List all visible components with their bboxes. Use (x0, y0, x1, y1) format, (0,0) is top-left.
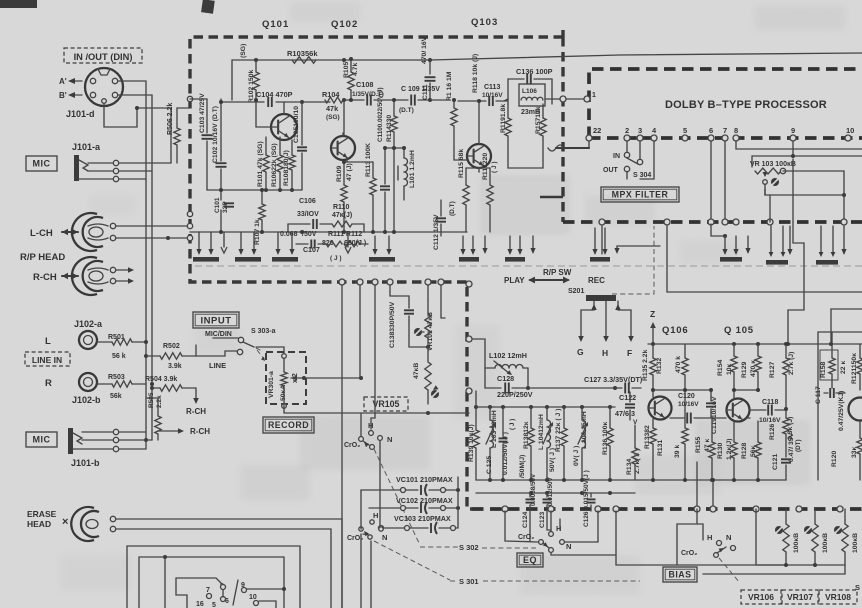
svg-text:R110: R110 (333, 204, 349, 211)
wire drop x360 (359, 285, 361, 378)
wire pin8 down2 (733, 219, 739, 225)
svg-text:C121: C121 (772, 454, 779, 470)
svg-text:R111 R112: R111 R112 (328, 231, 362, 238)
capacitor C120 10/16V (670, 393, 700, 424)
wire mic to rails (119, 163, 171, 179)
wire bias runs (616, 509, 697, 565)
wire mic/din feed (213, 337, 238, 339)
transistor Q101 (271, 114, 297, 140)
head L contacts (110, 223, 115, 240)
svg-text:47k: 47k (326, 104, 339, 113)
label R/P SW (543, 268, 572, 277)
label box VR107 (782, 590, 818, 604)
svg-text:C138330P/50V: C138330P/50V (389, 301, 396, 348)
svg-text:470 k: 470 k (675, 356, 682, 373)
svg-text:C118: C118 (762, 399, 778, 406)
svg-text:R: R (45, 378, 52, 389)
wire Q105 base (700, 417, 726, 419)
wire erase 2 (116, 529, 331, 608)
capacitor C118 10/16V (750, 399, 786, 424)
svg-text:A': A' (59, 77, 67, 86)
switch line S302 (420, 543, 536, 552)
svg-text:C105100/10: C105100/10 (293, 106, 300, 143)
capacitor C126 0.015/50V (583, 470, 596, 527)
label box MPX FILTER (601, 187, 679, 202)
pin 10 (845, 126, 854, 141)
ground bar 7 (590, 228, 610, 262)
svg-text:C122: C122 (619, 393, 636, 402)
label PLAY REC (504, 276, 605, 285)
wire pin22 hook (548, 141, 589, 151)
wire run right a (788, 159, 804, 344)
mic jack contacts (113, 160, 118, 181)
resistor R103 56k (287, 49, 318, 63)
arrow R-CH (62, 273, 78, 279)
dashed cro2 link lower (374, 541, 450, 580)
wire R114 bottom (393, 148, 395, 232)
svg-text:S: S (855, 583, 860, 592)
svg-text:C123: C123 (539, 512, 546, 528)
inductor L104 12mH (538, 407, 556, 480)
svg-text:R134: R134 (626, 459, 633, 475)
svg-text:R506 2.2k: R506 2.2k (167, 103, 174, 135)
wire cro2 lower rails (361, 490, 371, 608)
junction eq bottom (488, 478, 760, 482)
wire R155 top (711, 418, 713, 430)
mechanical link line (195, 265, 862, 267)
resistor R134 2.7k (626, 425, 641, 480)
svg-text:R127: R127 (769, 362, 776, 378)
bus contacts bottom (502, 506, 843, 512)
junction c128 (526, 386, 530, 390)
svg-text:B': B' (59, 91, 67, 100)
svg-text:8: 8 (734, 126, 738, 135)
svg-text:C1100.0022/50V(J): C1100.0022/50V(J) (377, 87, 384, 142)
resistor R126 3.3k (769, 407, 794, 440)
svg-text:REC: REC (588, 276, 605, 285)
svg-text:47 (J): 47 (J) (346, 163, 353, 181)
svg-text:VR 103 100κB: VR 103 100κB (750, 161, 796, 168)
wire L106 right (545, 98, 552, 100)
wire eq feed (475, 391, 477, 407)
capacitor C106 0.068/50V (280, 198, 332, 238)
resistor R501 56k (97, 334, 146, 360)
wire pin7 down (722, 141, 728, 225)
svg-text:2: 2 (625, 126, 629, 135)
resistor R116 1M (446, 71, 457, 148)
wire L106 frame (508, 79, 552, 104)
wire R505 (146, 398, 158, 407)
record/play amp enclosure dashed box (190, 30, 563, 509)
dolby processor enclosure dashed box (563, 69, 862, 222)
switch CrO2 upper (344, 421, 392, 449)
svg-text:9: 9 (791, 126, 795, 135)
resistor R119 1.8k (500, 104, 511, 160)
svg-text:R154: R154 (717, 360, 724, 376)
wire head R bottom (116, 278, 134, 284)
svg-text:PLAY: PLAY (504, 276, 525, 285)
svg-text:F: F (627, 348, 632, 358)
wire erase down (559, 519, 561, 530)
resistor R118 10k(J) (0, 0, 1, 1)
svg-text:R114330: R114330 (386, 115, 393, 142)
resistor R113 100k (365, 143, 376, 232)
wire Q105 collector bus (732, 388, 760, 392)
svg-text:CrO₂: CrO₂ (518, 534, 534, 541)
wire drop x390 (390, 285, 409, 300)
svg-text:R118 10k (J): R118 10k (J) (472, 54, 479, 93)
ground bar 4 (369, 236, 395, 262)
svg-text:220P/250V: 220P/250V (497, 390, 533, 399)
svg-text:0.0068/50V: 0.0068/50V (530, 473, 537, 506)
resistor R110 47k(J) (332, 204, 364, 227)
wire c138 vr101 join (409, 322, 430, 349)
resistor R107 1k (254, 190, 265, 245)
switch frame outer (127, 546, 300, 608)
svg-text:OUT: OUT (603, 167, 619, 174)
wire eq bottom bus (476, 479, 786, 481)
svg-text:Q103: Q103 (471, 17, 498, 28)
svg-text:( J ): ( J ) (509, 419, 516, 430)
junction bus y344 (651, 342, 788, 346)
pot VR108 100kB (834, 509, 859, 565)
svg-text:J101-a: J101-a (72, 142, 101, 152)
wire mic lower (119, 432, 152, 449)
wire DIN pin to rail 2 (118, 95, 152, 238)
wire vc right bus (457, 477, 459, 528)
svg-text:0.47/25V(KJ): 0.47/25V(KJ) (838, 391, 845, 431)
node amp edge x469 (466, 281, 472, 287)
svg-text:C 109 1/35V: C 109 1/35V (401, 86, 440, 93)
svg-text:C101: C101 (214, 197, 221, 213)
svg-text:C 117: C 117 (815, 386, 822, 404)
label J102-a (74, 319, 103, 329)
svg-text:5: 5 (212, 602, 216, 608)
label J101-d (66, 109, 95, 119)
label Q102 (331, 19, 358, 30)
svg-text:IN: IN (613, 153, 620, 160)
svg-text:10/16V: 10/16V (759, 417, 781, 424)
wire Q102 collector emitter (342, 133, 373, 164)
wire Q103 base (454, 148, 467, 160)
svg-text:CrO₂: CrO₂ (344, 442, 360, 449)
wire drop x342 (341, 285, 343, 608)
label Q105 (724, 325, 754, 336)
wire y413 right (428, 412, 469, 414)
svg-text:47/6.3: 47/6.3 (615, 409, 635, 418)
label box VR106 (741, 590, 781, 604)
svg-text:10: 10 (846, 126, 854, 135)
label S bottom right (855, 583, 860, 592)
svg-text:VC101 210PMAX: VC101 210PMAX (396, 475, 453, 484)
pot VR101 lower 47KB (413, 347, 439, 404)
resistor R505 2.2k (148, 392, 163, 440)
wire top feedback (232, 53, 862, 100)
dolby pin row dashed line (589, 136, 862, 140)
svg-text:3: 3 (638, 126, 642, 135)
resistor R120 33k (831, 420, 862, 480)
resistor R109 47(J) (336, 160, 353, 232)
wire R119 R157 bottom (508, 160, 543, 168)
ground arrows left (221, 232, 227, 253)
svg-text:0.012/50V: 0.012/50V (547, 476, 554, 506)
svg-text:3.9k: 3.9k (168, 363, 182, 370)
svg-text:R117220: R117220 (482, 153, 489, 180)
scan mark top-center (201, 0, 215, 14)
capacitor C124 0.0068/50V (522, 473, 537, 541)
resistor R101 47k(SG) (257, 140, 269, 190)
svg-text:C 125: C 125 (486, 456, 493, 474)
svg-text:C127 3.3/35V(DT): C127 3.3/35V(DT) (584, 375, 643, 384)
junction line nodes (144, 340, 154, 390)
svg-text:470/ 16V: 470/ 16V (421, 36, 428, 64)
ground bar 8 (766, 226, 788, 265)
wire line feed (196, 351, 237, 356)
ground arrow 7x (614, 246, 660, 254)
resistor R503 56k (97, 374, 146, 400)
capacitor C112 1/35V (433, 200, 456, 250)
wire wafer 10 (259, 601, 276, 608)
transistor Q103 (467, 144, 491, 168)
svg-text:(SG): (SG) (326, 114, 340, 121)
svg-text:C104 470P: C104 470P (256, 90, 293, 99)
wire Q101 base (256, 100, 272, 127)
wire Q103 emitter (466, 168, 490, 172)
svg-text:VR105: VR105 (373, 399, 400, 409)
resistor R504 3.9k (145, 376, 196, 391)
svg-text:RECORD: RECORD (268, 420, 309, 430)
wire Q103 down (478, 171, 480, 173)
label J101-b (71, 458, 100, 468)
pin 22 (586, 126, 601, 141)
svg-text:IN /OUT (DIN): IN /OUT (DIN) (74, 52, 133, 62)
svg-text:DOLBY B–TYPE PROCESSOR: DOLBY B–TYPE PROCESSOR (665, 99, 827, 111)
svg-text:16: 16 (196, 601, 204, 608)
svg-text:470 κ: 470 κ (750, 360, 757, 377)
svg-text:VC102 210PMAX: VC102 210PMAX (396, 496, 453, 505)
trimmer VC101 210PMAX (396, 475, 460, 496)
svg-text:S 304: S 304 (633, 172, 651, 179)
pot VR106 100kB (775, 509, 800, 565)
svg-text:J101-d: J101-d (66, 109, 95, 119)
svg-text:100κB: 100κB (793, 533, 800, 553)
svg-text:7: 7 (723, 126, 727, 135)
resistor R115 68k (458, 149, 469, 232)
wire drop x697 (696, 462, 698, 509)
wire pin6 down (708, 141, 714, 225)
svg-text:100κB: 100κB (852, 533, 859, 553)
label J102-b (72, 395, 101, 405)
pot VR103 100KB (750, 161, 796, 195)
pin 2 (624, 126, 630, 141)
dashed cro2 link (374, 449, 420, 545)
capacitor C103 47/25V (199, 93, 213, 190)
svg-text:(D.T): (D.T) (449, 201, 456, 216)
svg-text:10/16V: 10/16V (678, 401, 699, 408)
label J101-a (72, 142, 101, 152)
svg-text:S 303-a: S 303-a (251, 328, 276, 335)
svg-text:R139 10κ(J): R139 10κ(J) (468, 424, 475, 462)
svg-text:2.2k: 2.2k (156, 395, 163, 408)
ground arrow r1 (787, 226, 792, 255)
junction top nodes (254, 58, 346, 62)
svg-text:LINE IN: LINE IN (32, 355, 62, 365)
ground bar 7b (711, 224, 742, 262)
svg-text:S 301: S 301 (459, 577, 479, 586)
label box EQ (517, 553, 543, 567)
svg-text:39 k: 39 k (674, 445, 681, 458)
inductor L105 15mH (573, 407, 588, 480)
ground arrow 6x (530, 236, 535, 254)
svg-text:R115 68k: R115 68k (458, 149, 465, 178)
svg-text:0.068: 0.068 (280, 231, 298, 238)
label S303-a (251, 328, 276, 335)
svg-text:R131: R131 (657, 440, 664, 456)
wire DIN bottom pin (104, 104, 171, 163)
svg-text:R503: R503 (108, 374, 125, 381)
resistor R138 12k (523, 407, 534, 480)
wire eq net verticals (288, 224, 364, 232)
ground bar 9 (816, 226, 838, 265)
wire y418 cont (747, 417, 750, 419)
wire L101 node (383, 146, 406, 150)
dashed bias link (719, 558, 740, 583)
capacitor C113 10/16V (458, 84, 508, 106)
wire ground bus (190, 231, 467, 233)
svg-text:L102 12mH: L102 12mH (489, 351, 527, 360)
capacitor C110 0.0022/50V(J) (377, 87, 390, 232)
svg-text:6: 6 (709, 126, 713, 135)
svg-text:VR301-a: VR301-a (268, 371, 275, 398)
label LINE (209, 361, 226, 370)
svg-text:R120: R120 (831, 451, 838, 467)
svg-text:R-CH: R-CH (33, 272, 57, 283)
wire drop x713 (711, 478, 715, 509)
switch frame inner (139, 557, 284, 608)
scan mark top-left (0, 0, 37, 8)
wire y493 bus (476, 491, 635, 495)
resistor R133 82 (644, 419, 656, 460)
wire VR103 out (783, 171, 846, 224)
trimmer VC102 210PMAX (396, 496, 460, 514)
wire N to VC103 (379, 441, 381, 525)
svg-text:N: N (387, 435, 392, 444)
ground bar 5 (459, 236, 479, 262)
switch S303-a (237, 337, 262, 354)
pin 6 (708, 126, 714, 141)
svg-text:R137 22κ ( J ): R137 22κ ( J ) (555, 409, 562, 452)
capacitor C138 330P/50V (389, 300, 414, 348)
svg-text:100κB: 100κB (822, 533, 829, 553)
dolby bus contacts (599, 219, 847, 225)
arrow A' (59, 77, 82, 86)
pot VR301-a 50KA x2 (268, 354, 306, 409)
wire R502 out (195, 345, 197, 356)
label box RECORD (263, 417, 314, 433)
svg-text:1: 1 (592, 92, 596, 99)
inductor L106 23mH (519, 84, 545, 116)
resistor R137 22k (555, 407, 567, 480)
label ERASE HEAD (27, 509, 57, 529)
wire Q105 collector (733, 390, 735, 399)
svg-text:MPX FILTER: MPX FILTER (612, 190, 669, 200)
junction Q101 base (254, 98, 258, 102)
pin 8 (733, 126, 739, 141)
mic jack J101-a (74, 155, 114, 181)
transistor Q-right edge (849, 398, 862, 421)
capacitor C121 0.47/35V (772, 432, 802, 480)
svg-text:22: 22 (593, 126, 601, 135)
capacitor C102 10/16V(DT) (212, 99, 227, 190)
capacitor C122 47/6.3V (615, 392, 638, 426)
svg-text:L101 1.2mH: L101 1.2mH (409, 150, 416, 188)
capacitor C119 10/16V (706, 390, 718, 434)
resistor R105 4.7k (343, 57, 359, 100)
svg-text:L106: L106 (522, 88, 537, 95)
wire vr103 gnd (769, 195, 771, 222)
wire wafer 9 (247, 587, 286, 591)
label box MIC lower (26, 432, 57, 447)
resistor R157 10k (535, 104, 546, 160)
wire R131 bottom (684, 460, 686, 480)
wire run right c (831, 309, 862, 344)
svg-text:/50M(J): /50M(J) (519, 455, 526, 478)
label R-CH line (186, 407, 206, 416)
label R/P HEAD (20, 252, 65, 263)
capacitor C117 0.47/25V (815, 386, 845, 431)
svg-text:INPUT: INPUT (201, 315, 232, 326)
capacitor C-mid 50V (519, 455, 526, 478)
resistor R127 2.7k (769, 344, 795, 409)
svg-text:×: × (62, 516, 68, 528)
capacitor C105 100/10 (293, 102, 307, 190)
wire main y100 (430, 99, 450, 101)
transistor Q106 (649, 397, 672, 420)
wire eq sw (505, 511, 616, 555)
wire head R top (116, 267, 134, 273)
ground arrow r2 (841, 226, 846, 255)
svg-text:C113: C113 (484, 84, 500, 91)
record eq sub-box (818, 332, 862, 480)
svg-text:Q101: Q101 (262, 19, 289, 30)
wire s303 out (256, 347, 284, 353)
label Q101 (262, 19, 289, 30)
svg-text:R155: R155 (695, 437, 702, 453)
svg-text:C120: C120 (678, 393, 695, 400)
wire right subbox stub (0, 0, 1, 1)
svg-text:L-CH: L-CH (30, 228, 53, 239)
wire Q103 collector (477, 99, 481, 144)
wire Q106 collector bus (651, 388, 713, 392)
label box LINE IN (25, 352, 70, 366)
resistor R155 47k (695, 430, 715, 480)
resistor R114 330 (386, 98, 397, 148)
wire leg x485 (469, 339, 485, 388)
resistor R118 10k(J) body (472, 54, 479, 93)
svg-text:C136 100P: C136 100P (516, 67, 553, 76)
label box VR105 (364, 397, 408, 411)
pot VR301 dashed box (266, 352, 306, 404)
wire head L bottom (116, 236, 189, 240)
capacitor C111 470/16V (421, 36, 436, 102)
resistor R139 10K (468, 407, 479, 480)
svg-text:R1 16 1M: R1 16 1M (446, 71, 453, 101)
wire pin9 tap (752, 156, 862, 167)
switch S303 link arrow (257, 350, 265, 361)
wire bias row2 (703, 565, 845, 574)
svg-text:Q102: Q102 (331, 19, 358, 30)
erase head contacts (110, 516, 115, 531)
